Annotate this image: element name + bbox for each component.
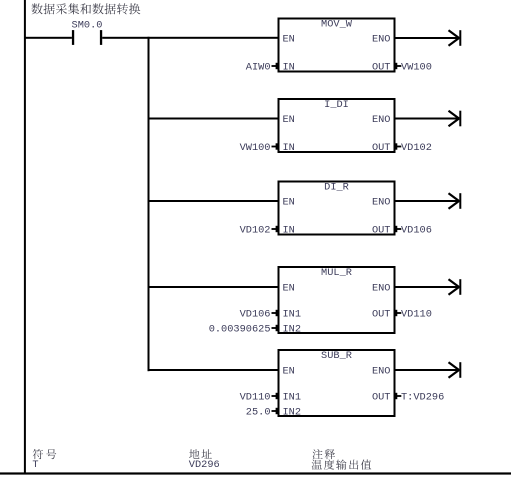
table header 注释	[312, 449, 335, 459]
svg-text:IN: IN	[283, 62, 295, 74]
wire rung5 branch to block	[148, 369, 279, 371]
operand AIW0 to MOV_W.IN	[246, 62, 279, 74]
svg-text:OUT: OUT	[372, 62, 391, 74]
svg-text:EN: EN	[283, 34, 295, 46]
function block DI_R	[279, 182, 395, 237]
wire rung2 branch to block	[148, 118, 279, 120]
svg-text:T: T	[32, 459, 38, 471]
operand VD106 from DI_R.OUT	[395, 225, 432, 237]
svg-text:SM0.0: SM0.0	[72, 19, 103, 31]
open rung arrow 2	[449, 111, 462, 127]
wire rung4 branch to block	[148, 286, 279, 288]
open rung arrow 5	[449, 362, 462, 378]
svg-text:EN: EN	[283, 283, 295, 295]
svg-text:VD296: VD296	[189, 459, 220, 471]
operand VW100 to I_DI.IN	[240, 142, 279, 154]
operand VD110 to SUB_R.IN1	[240, 392, 279, 404]
operand VD102 to DI_R.IN	[240, 225, 279, 237]
bottom border line	[0, 472, 511, 474]
svg-text:AIW0: AIW0	[246, 62, 271, 74]
svg-text:ENO: ENO	[372, 114, 391, 126]
svg-text:VD110: VD110	[401, 309, 432, 321]
svg-text:EN: EN	[283, 114, 295, 126]
svg-text:ENO: ENO	[372, 34, 391, 46]
operand VW100 from MOV_W.OUT	[395, 62, 432, 74]
svg-text:IN1: IN1	[283, 392, 302, 404]
operand VD110 from MUL_R.OUT	[395, 309, 432, 321]
svg-text:ENO: ENO	[372, 197, 391, 209]
svg-text:VD102: VD102	[401, 142, 432, 154]
wire rung3 branch to block	[148, 200, 279, 202]
svg-text:OUT: OUT	[372, 392, 391, 404]
wire ENO rung4	[395, 286, 460, 288]
contact SM0.0	[24, 30, 102, 45]
open rung arrow 4	[449, 279, 462, 295]
svg-text:EN: EN	[283, 366, 295, 378]
operand 0.00390625 to MUL_R.IN2	[209, 324, 279, 336]
svg-text:OUT: OUT	[372, 309, 391, 321]
svg-text:VD110: VD110	[240, 392, 271, 404]
vertical branch wire	[148, 37, 150, 371]
svg-text:IN1: IN1	[283, 309, 302, 321]
svg-text:VW100: VW100	[240, 142, 271, 154]
function block SUB_R	[279, 350, 395, 419]
svg-text:ENO: ENO	[372, 366, 391, 378]
svg-text:IN2: IN2	[283, 407, 302, 419]
svg-text:ENO: ENO	[372, 283, 391, 295]
comment value 温度输出值	[312, 459, 372, 469]
operand T:VD296 from SUB_R.OUT	[395, 392, 444, 404]
svg-text:EN: EN	[283, 197, 295, 209]
operand VD106 to MUL_R.IN1	[240, 309, 279, 321]
function block I_DI	[279, 99, 395, 154]
open rung arrow 3	[449, 193, 462, 209]
svg-text:I_DI: I_DI	[324, 99, 349, 111]
svg-text:IN: IN	[283, 225, 295, 237]
left power rail	[24, 0, 26, 474]
svg-text:IN2: IN2	[283, 324, 302, 336]
operand 25.0 to SUB_R.IN2	[246, 407, 279, 419]
svg-text:VD102: VD102	[240, 225, 271, 237]
svg-text:VD106: VD106	[240, 309, 271, 321]
table header 符号	[33, 449, 56, 459]
svg-text:OUT: OUT	[372, 142, 391, 154]
open rung arrow 1	[449, 30, 462, 46]
svg-text:IN: IN	[283, 142, 295, 154]
svg-text:0.00390625: 0.00390625	[209, 324, 271, 336]
svg-text:VW100: VW100	[401, 62, 432, 74]
svg-text:DI_R: DI_R	[324, 182, 349, 194]
operand VD102 from I_DI.OUT	[395, 142, 432, 154]
network comment 数据采集和数据转换	[31, 3, 140, 14]
wire ENO rung1	[395, 37, 460, 39]
wire ENO rung5	[395, 369, 460, 371]
svg-text:SUB_R: SUB_R	[321, 350, 352, 362]
svg-text:OUT: OUT	[372, 225, 391, 237]
svg-text:VD106: VD106	[401, 225, 432, 237]
wire rung1 to block MOV_W	[102, 37, 278, 39]
svg-text:25.0: 25.0	[246, 407, 271, 419]
wire ENO rung3	[395, 200, 460, 202]
wire ENO rung2	[395, 118, 460, 120]
function block MUL_R	[279, 267, 395, 336]
svg-text:MUL_R: MUL_R	[321, 267, 352, 279]
svg-text:T:VD296: T:VD296	[401, 392, 444, 404]
table header 地址	[189, 449, 212, 459]
function block MOV_W	[279, 19, 395, 74]
svg-text:MOV_W: MOV_W	[321, 19, 353, 31]
